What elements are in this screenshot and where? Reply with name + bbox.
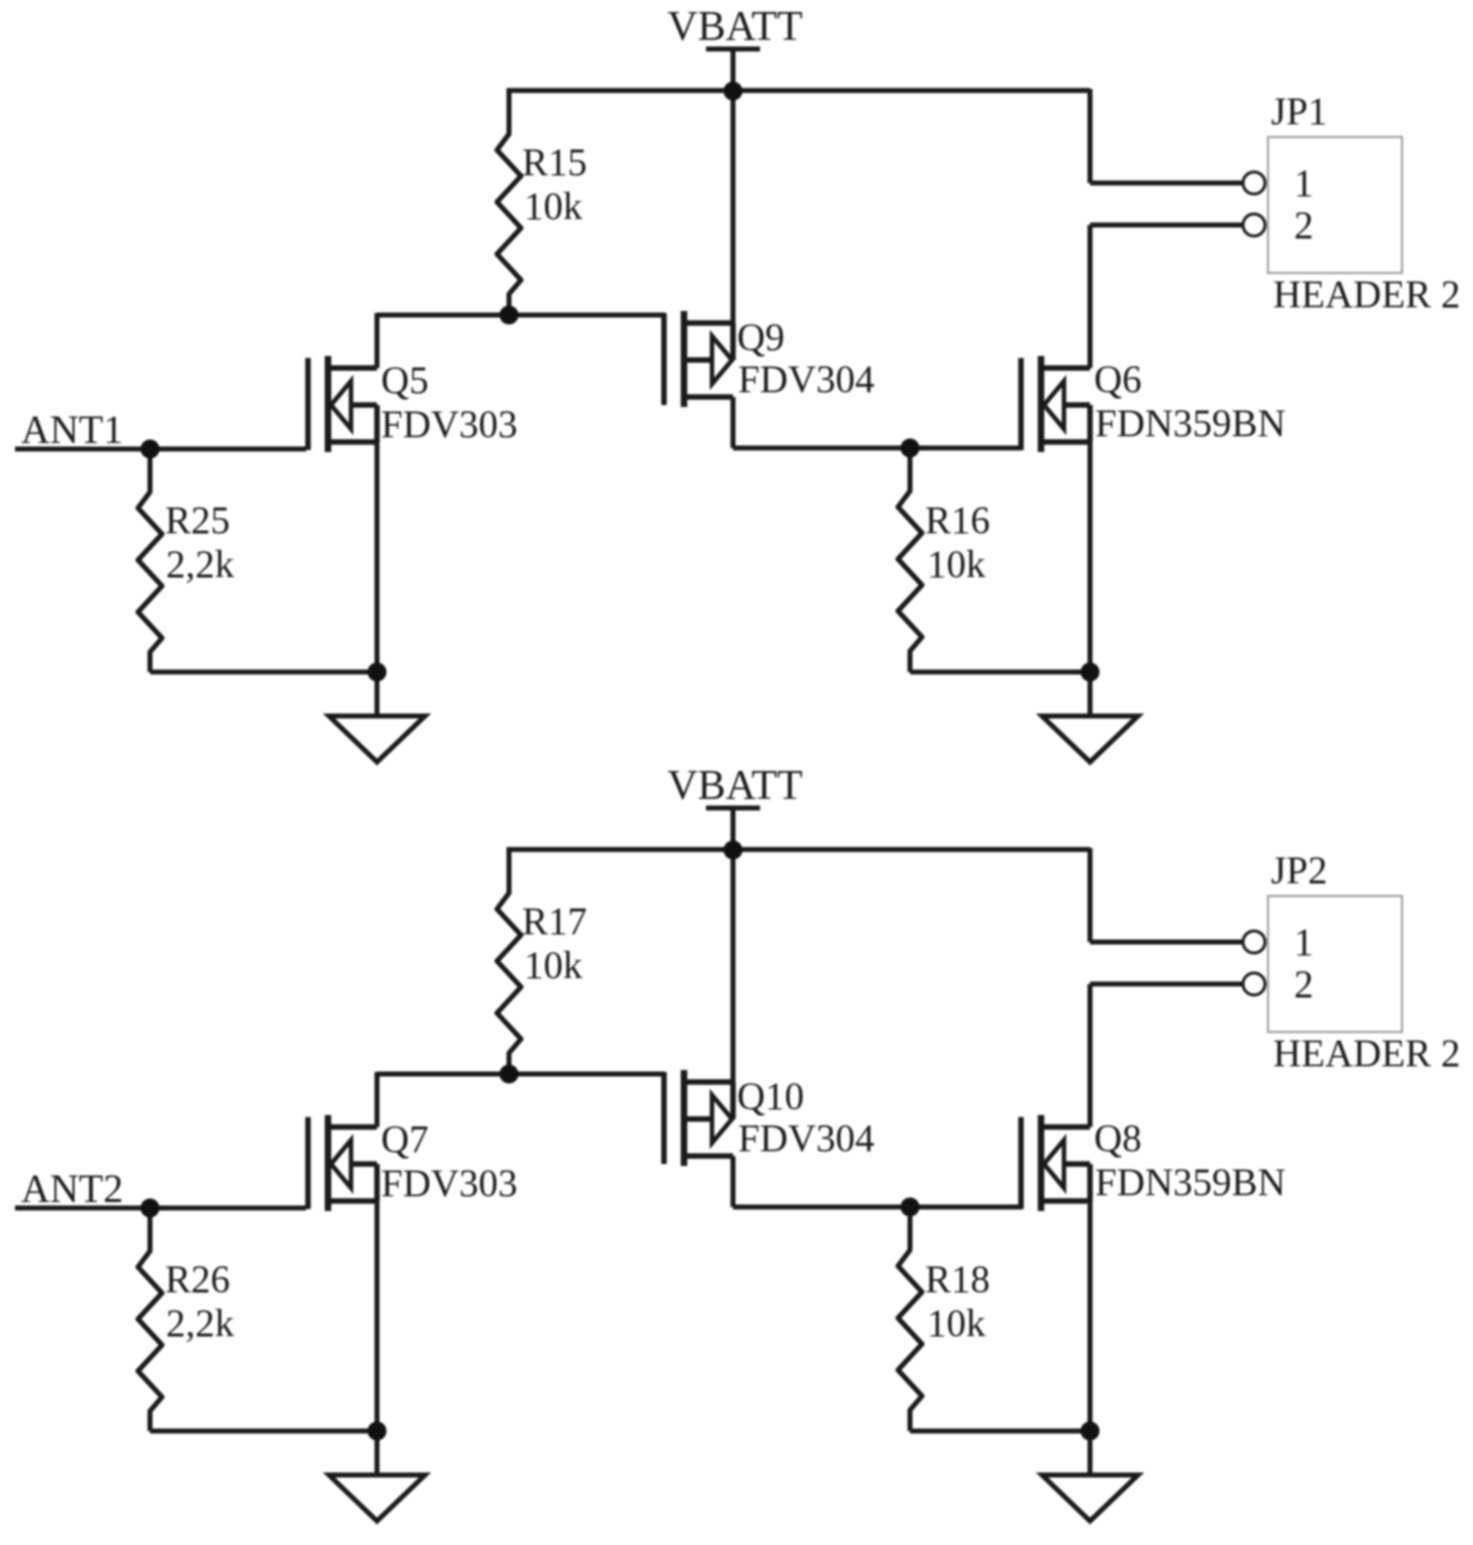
svg-text:FDV304: FDV304 (738, 1117, 875, 1160)
svg-text:Q7: Q7 (381, 1118, 429, 1161)
svg-text:ANT2: ANT2 (21, 1166, 123, 1211)
svg-text:JP2: JP2 (1271, 849, 1327, 892)
svg-text:1: 1 (1294, 921, 1314, 964)
svg-text:2,2k: 2,2k (166, 1302, 235, 1345)
svg-text:Q10: Q10 (737, 1075, 804, 1118)
svg-text:R17: R17 (522, 900, 587, 943)
svg-text:10k: 10k (524, 944, 583, 987)
svg-text:HEADER 2: HEADER 2 (1273, 1032, 1460, 1075)
svg-text:FDN359BN: FDN359BN (1095, 1161, 1286, 1204)
svg-text:10k: 10k (927, 1302, 986, 1345)
svg-text:FDV303: FDV303 (381, 1162, 518, 1205)
svg-text:R18: R18 (925, 1258, 990, 1301)
svg-text:R26: R26 (165, 1258, 230, 1301)
svg-text:2: 2 (1294, 963, 1314, 1006)
svg-text:VBATT: VBATT (667, 763, 802, 809)
svg-text:Q8: Q8 (1094, 1117, 1142, 1160)
